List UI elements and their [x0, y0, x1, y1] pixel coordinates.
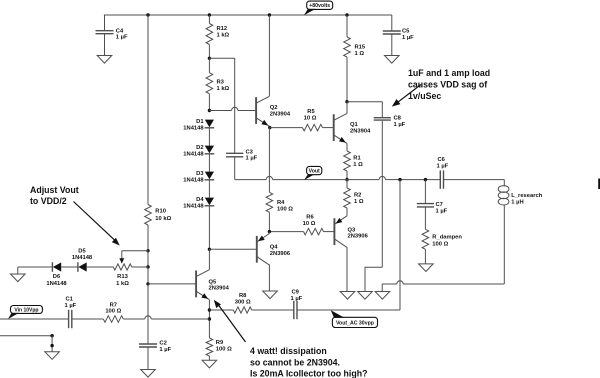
- svg-text:R3: R3: [217, 80, 225, 86]
- wire D3-D4: [208, 180, 210, 198]
- node Vin callout: [8, 306, 42, 320]
- svg-text:Q3: Q3: [348, 227, 357, 233]
- transistor Q1 2N3904: [334, 113, 347, 143]
- svg-text:Is 20mA Icollector too high?: Is 20mA Icollector too high?: [250, 369, 367, 378]
- ground R_dampen: [419, 264, 434, 272]
- label R9 value: [216, 340, 232, 352]
- node Vout_AC callout: [331, 310, 378, 327]
- diode D3: [205, 172, 215, 180]
- svg-text:causes VDD sag of: causes VDD sag of: [408, 80, 487, 90]
- resistor R9: [206, 338, 213, 356]
- svg-text:C6: C6: [438, 157, 446, 163]
- wire R13 wiper to node: [122, 250, 148, 252]
- label C4 value: [116, 28, 128, 40]
- svg-text:D5: D5: [78, 248, 86, 254]
- wire emitter to R8: [209, 309, 233, 311]
- svg-text:R13: R13: [117, 274, 128, 280]
- svg-text:10 Ω: 10 Ω: [304, 115, 317, 121]
- annotation adjust-vout arrow: [74, 202, 120, 246]
- svg-text:1 kΩ: 1 kΩ: [116, 281, 129, 287]
- label D5: [72, 248, 93, 261]
- svg-text:1 µF: 1 µF: [116, 35, 128, 41]
- annotation vdd-sag text: [408, 68, 490, 101]
- annotation dissipation text: [250, 346, 367, 378]
- junction ground return: [50, 334, 53, 337]
- wire rail to R15: [346, 15, 348, 37]
- svg-text:R6: R6: [306, 214, 314, 220]
- capacitor C4: [96, 31, 114, 34]
- svg-text:to VDD/2: to VDD/2: [30, 196, 67, 206]
- wire input ground return: [0, 335, 52, 337]
- wire C3 top lead: [234, 58, 236, 153]
- junction Vout/riser: [398, 178, 401, 181]
- resistor R_dampen: [422, 229, 429, 249]
- junction R3/D1/Q2 base: [208, 109, 211, 112]
- resistor R5: [303, 124, 323, 131]
- ground Q3 collector: [340, 292, 355, 300]
- clipped element at right edge: [598, 179, 600, 190]
- svg-text:C4: C4: [116, 28, 124, 34]
- svg-text:1 kΩ: 1 kΩ: [217, 86, 230, 92]
- wire R4 to Q4 node: [268, 212, 270, 231]
- wire C3 bottom lead: [234, 157, 236, 180]
- label Q4: [270, 244, 291, 256]
- resistor R4: [266, 192, 273, 212]
- label L_research value: [511, 193, 542, 205]
- ground C5: [385, 56, 400, 64]
- wire Q2 base: [209, 107, 256, 110]
- potentiometer R13: [113, 251, 131, 270]
- diode D5: [78, 262, 87, 272]
- ground C4: [97, 56, 112, 64]
- inductor L_research: [498, 186, 509, 205]
- wire R2 to Q3 emitter: [346, 208, 348, 216]
- junction R12/R3/C3: [208, 57, 211, 60]
- resistor R6: [304, 228, 324, 235]
- wire C7 top lead: [424, 180, 426, 204]
- svg-text:1v/uSec: 1v/uSec: [408, 91, 441, 101]
- svg-text:C1: C1: [66, 297, 74, 303]
- svg-text:1 µF: 1 µF: [394, 122, 406, 128]
- wire C8 jog to ground: [365, 267, 382, 291]
- wire return down: [51, 336, 53, 352]
- svg-text:Adjust Vout: Adjust Vout: [30, 185, 79, 195]
- wire Q2 emitter to R5: [270, 127, 303, 129]
- svg-text:Q1: Q1: [350, 122, 359, 128]
- junction Q5 base node: [146, 282, 149, 285]
- svg-text:R10: R10: [155, 209, 166, 215]
- ground load return: [375, 292, 390, 300]
- junction R1/R2 on Vout: [345, 178, 348, 181]
- wire C8 down long: [381, 121, 383, 268]
- wire R6 to Q3 base: [324, 231, 335, 233]
- wire bias gnd lead: [17, 267, 19, 274]
- wire R9 to ground: [208, 356, 210, 360]
- ground R9: [202, 360, 217, 368]
- svg-text:1 µF: 1 µF: [402, 35, 414, 41]
- svg-text:100 Ω: 100 Ω: [277, 206, 293, 212]
- svg-text:1 Ω: 1 Ω: [355, 51, 365, 57]
- ground bias row: [11, 274, 26, 282]
- svg-text:1N4148: 1N4148: [46, 281, 67, 287]
- svg-text:Q2: Q2: [270, 105, 278, 111]
- svg-text:4 watt! dissipation: 4 watt! dissipation: [250, 346, 327, 356]
- junction Vout/C7: [424, 178, 427, 181]
- wire inductor down: [503, 205, 505, 285]
- diode D1: [205, 120, 215, 128]
- junction top rail / Q2 collector: [268, 13, 271, 16]
- svg-text:+80volts: +80volts: [309, 3, 330, 9]
- wire Q5 base: [148, 283, 196, 285]
- wire Vout rail to R2: [346, 180, 348, 188]
- label R1 value: [353, 156, 363, 168]
- wire R5 to Q1 base: [323, 127, 334, 129]
- svg-text:100 Ω: 100 Ω: [432, 242, 448, 248]
- wire rail to R12: [208, 15, 210, 24]
- label R15 value: [355, 45, 366, 57]
- capacitor C5: [383, 31, 401, 34]
- svg-text:R2: R2: [354, 193, 361, 199]
- svg-text:10 Ω: 10 Ω: [303, 221, 316, 227]
- wire Vout to inductor: [503, 180, 505, 187]
- wire gnd to D6: [18, 266, 53, 268]
- capacitor C9: [294, 301, 297, 319]
- junction top rail / R15: [345, 13, 348, 16]
- wire +80V top rail: [104, 14, 392, 16]
- svg-text:L_research: L_research: [511, 193, 542, 199]
- svg-text:Vout_AC 30vpp: Vout_AC 30vpp: [336, 320, 374, 326]
- capacitor C6: [440, 170, 443, 188]
- resistor R15: [344, 37, 351, 57]
- label C5 value: [402, 29, 414, 41]
- wire R3 to base node: [208, 94, 210, 111]
- wire R10 to wiper node: [147, 225, 149, 251]
- label R8 value: [235, 293, 251, 305]
- capacitor C8: [374, 118, 391, 120]
- wire node to C3 column: [209, 57, 234, 59]
- label D1: [183, 119, 204, 132]
- junction return lower: [50, 344, 53, 347]
- svg-text:1N4148: 1N4148: [183, 177, 204, 183]
- svg-text:Q4: Q4: [270, 244, 279, 250]
- svg-text:R_dampen: R_dampen: [432, 235, 462, 241]
- svg-text:1 Ω: 1 Ω: [353, 162, 363, 168]
- svg-text:C7: C7: [436, 202, 443, 208]
- wire C2 bottom lead: [147, 347, 149, 369]
- wire D1-D2: [208, 128, 210, 146]
- svg-text:D2: D2: [196, 145, 203, 151]
- ground C2: [141, 370, 156, 378]
- label D2: [183, 145, 204, 158]
- svg-text:10 kΩ: 10 kΩ: [155, 216, 171, 222]
- label R7 value: [105, 302, 121, 314]
- svg-text:D6: D6: [53, 274, 61, 280]
- label R6 value: [303, 214, 316, 227]
- wire C4 bottom lead: [104, 34, 106, 56]
- label R2 value: [354, 193, 364, 205]
- svg-text:D3: D3: [196, 171, 204, 177]
- node +80volts callout: [304, 1, 333, 15]
- label Q1: [350, 122, 371, 135]
- svg-text:100 Ω: 100 Ω: [105, 309, 121, 315]
- svg-text:C9: C9: [292, 290, 300, 296]
- wire node to R3: [208, 58, 210, 72]
- wire R15 to node: [346, 57, 348, 102]
- diode D6: [52, 262, 61, 272]
- wire C9 to riser: [297, 309, 400, 311]
- node Vout callout: [304, 166, 322, 180]
- svg-text:1 kΩ: 1 kΩ: [217, 32, 230, 38]
- svg-text:Q5: Q5: [209, 279, 218, 285]
- wire C8 top lead: [381, 102, 383, 118]
- svg-text:D1: D1: [196, 119, 204, 125]
- svg-text:300 Ω: 300 Ω: [235, 299, 251, 305]
- transistor Q3 2N3906: [334, 216, 347, 248]
- label Q2: [270, 105, 291, 117]
- label Q3: [348, 227, 369, 239]
- transistor Q2 2N3904: [256, 96, 269, 126]
- wire R12 to node: [208, 45, 210, 59]
- wire to C2: [147, 284, 149, 344]
- svg-text:2N3904: 2N3904: [350, 129, 371, 135]
- wire C4 top lead: [104, 15, 106, 31]
- wire Q2 emitter node: [268, 126, 271, 129]
- wire input left: [0, 318, 69, 320]
- svg-text:D4: D4: [196, 197, 204, 203]
- svg-text:1 µF: 1 µF: [65, 303, 77, 309]
- resistor R3: [206, 73, 213, 94]
- svg-text:2N3904: 2N3904: [209, 286, 230, 292]
- label C3 value: [246, 149, 258, 161]
- svg-text:R9: R9: [216, 340, 224, 346]
- junction top rail / left branch: [146, 13, 149, 16]
- wire Q5 emitter down: [208, 300, 210, 338]
- label R10 value: [155, 209, 171, 222]
- wire left branch lower: [147, 267, 149, 284]
- svg-text:C2: C2: [159, 341, 166, 347]
- svg-text:1N4148: 1N4148: [183, 125, 204, 131]
- svg-text:1N4148: 1N4148: [183, 151, 204, 157]
- label C9 value: [291, 290, 303, 302]
- svg-text:1N4148: 1N4148: [183, 203, 204, 209]
- wire Q3 collector down: [346, 247, 348, 291]
- junction emitter/R8: [208, 308, 211, 311]
- junction wiper node: [146, 249, 149, 252]
- annotation dissipation arrow: [214, 300, 246, 342]
- wire load return: [382, 281, 504, 284]
- label D6: [46, 274, 67, 287]
- svg-text:C8: C8: [394, 116, 402, 122]
- resistor R7: [103, 316, 123, 323]
- junction emitter/input: [208, 317, 211, 320]
- wire D6-D5: [61, 266, 78, 268]
- label C6 value: [437, 157, 449, 169]
- wire Q2 emitter down: [268, 128, 270, 193]
- wire R13 to node: [132, 266, 148, 268]
- resistor R1: [344, 151, 351, 171]
- resistor R2: [344, 188, 351, 208]
- ground C8 return: [358, 292, 373, 300]
- svg-text:Vin 10Vpp: Vin 10Vpp: [14, 307, 38, 313]
- svg-text:1 µF: 1 µF: [437, 163, 449, 169]
- wire R4 node to R6: [269, 231, 303, 233]
- label C1 value: [65, 297, 77, 309]
- label C7 value: [436, 202, 448, 214]
- annotation adjust-vout text: [30, 185, 79, 206]
- capacitor C2: [139, 344, 157, 347]
- junction R4/R6/Q4 emitter: [268, 230, 271, 233]
- annotation vdd-sag arrow: [392, 85, 421, 107]
- wire Q4 base: [209, 248, 256, 250]
- wire left branch upper: [147, 15, 149, 205]
- svg-text:1 Ω: 1 Ω: [354, 199, 364, 205]
- svg-text:R8: R8: [239, 293, 247, 299]
- label R5 value: [304, 109, 317, 121]
- transistor Q4 2N3906: [257, 234, 270, 266]
- resistor R12: [206, 24, 213, 45]
- svg-text:R5: R5: [307, 109, 315, 115]
- svg-text:R7: R7: [110, 302, 117, 308]
- svg-text:Vout: Vout: [309, 168, 320, 174]
- wire riser up: [399, 180, 401, 310]
- node Q1 collector junction: [345, 100, 348, 103]
- wire D2-D3: [208, 154, 210, 172]
- wire R8 to C9: [252, 309, 294, 311]
- wire Q2 collector: [268, 15, 270, 96]
- label C8 value: [394, 116, 406, 128]
- wire D4 to Q4 base node: [208, 206, 210, 249]
- svg-text:1uF and 1 amp load: 1uF and 1 amp load: [408, 68, 490, 78]
- wire R1 to Vout rail: [346, 171, 348, 180]
- wire C1 to R7: [72, 318, 104, 320]
- svg-text:1N4148: 1N4148: [72, 255, 93, 261]
- junction diode chain / Q4 base: [208, 248, 211, 251]
- svg-text:2N3904: 2N3904: [270, 111, 291, 117]
- wire R_dampen to ground: [424, 249, 426, 264]
- label C2 value: [159, 341, 171, 353]
- wire D5 to R13: [87, 266, 114, 268]
- transistor Q5 2N3904: [196, 270, 209, 300]
- wire Q4 collector down: [268, 265, 270, 292]
- svg-text:R15: R15: [355, 45, 366, 51]
- diode D2: [205, 146, 215, 154]
- svg-text:100 Ω: 100 Ω: [216, 346, 232, 352]
- svg-text:R12: R12: [217, 26, 228, 32]
- resistor R8: [233, 307, 251, 313]
- wire Vout rail: [235, 176, 505, 179]
- wire Q4 emitter up: [268, 232, 270, 234]
- wire rail corner to C5: [391, 15, 393, 31]
- label R12 value: [217, 26, 230, 38]
- svg-text:2N3906: 2N3906: [348, 234, 369, 240]
- diode D4: [205, 198, 215, 206]
- label D4: [183, 197, 204, 210]
- svg-text:1 µF: 1 µF: [159, 347, 171, 353]
- capacitor C1: [69, 310, 72, 328]
- wire left branch mid: [147, 251, 149, 267]
- label D3: [183, 171, 204, 184]
- ground input return: [45, 352, 60, 360]
- svg-text:R4: R4: [277, 200, 285, 206]
- wire R7 to Q5 emitter: [123, 316, 209, 319]
- svg-text:C5: C5: [402, 29, 410, 35]
- label Q5: [209, 279, 230, 291]
- wire chain to Q5 collector: [208, 249, 210, 269]
- svg-text:1 µF: 1 µF: [291, 296, 303, 302]
- capacitor C3: [226, 153, 243, 157]
- wire return corner down: [381, 284, 383, 292]
- label R3 value: [217, 80, 230, 92]
- capacitor C7: [417, 204, 434, 207]
- svg-text:1 µH: 1 µH: [511, 199, 523, 205]
- svg-text:2N3906: 2N3906: [270, 251, 291, 257]
- wire Q1 emitter to R1: [346, 143, 348, 151]
- wire C5 bottom lead: [391, 34, 393, 55]
- svg-text:so cannot be 2N3904.: so cannot be 2N3904.: [250, 357, 340, 367]
- wire node to C8 branch: [347, 101, 382, 103]
- svg-text:C3: C3: [246, 149, 254, 155]
- wire C7 to R_dampen: [424, 207, 426, 229]
- svg-text:1 µF: 1 µF: [436, 208, 448, 214]
- resistor R10: [145, 205, 152, 226]
- junction top rail / R12: [208, 13, 211, 16]
- junction R13 node: [146, 265, 149, 268]
- svg-text:1 µF: 1 µF: [246, 156, 258, 162]
- label R13 value: [116, 274, 129, 287]
- wire Q1 collector: [346, 102, 348, 114]
- svg-text:R1: R1: [353, 156, 361, 162]
- label R4 value: [277, 200, 293, 212]
- label R_dampen value: [432, 235, 462, 248]
- ground Q4 collector: [263, 291, 278, 299]
